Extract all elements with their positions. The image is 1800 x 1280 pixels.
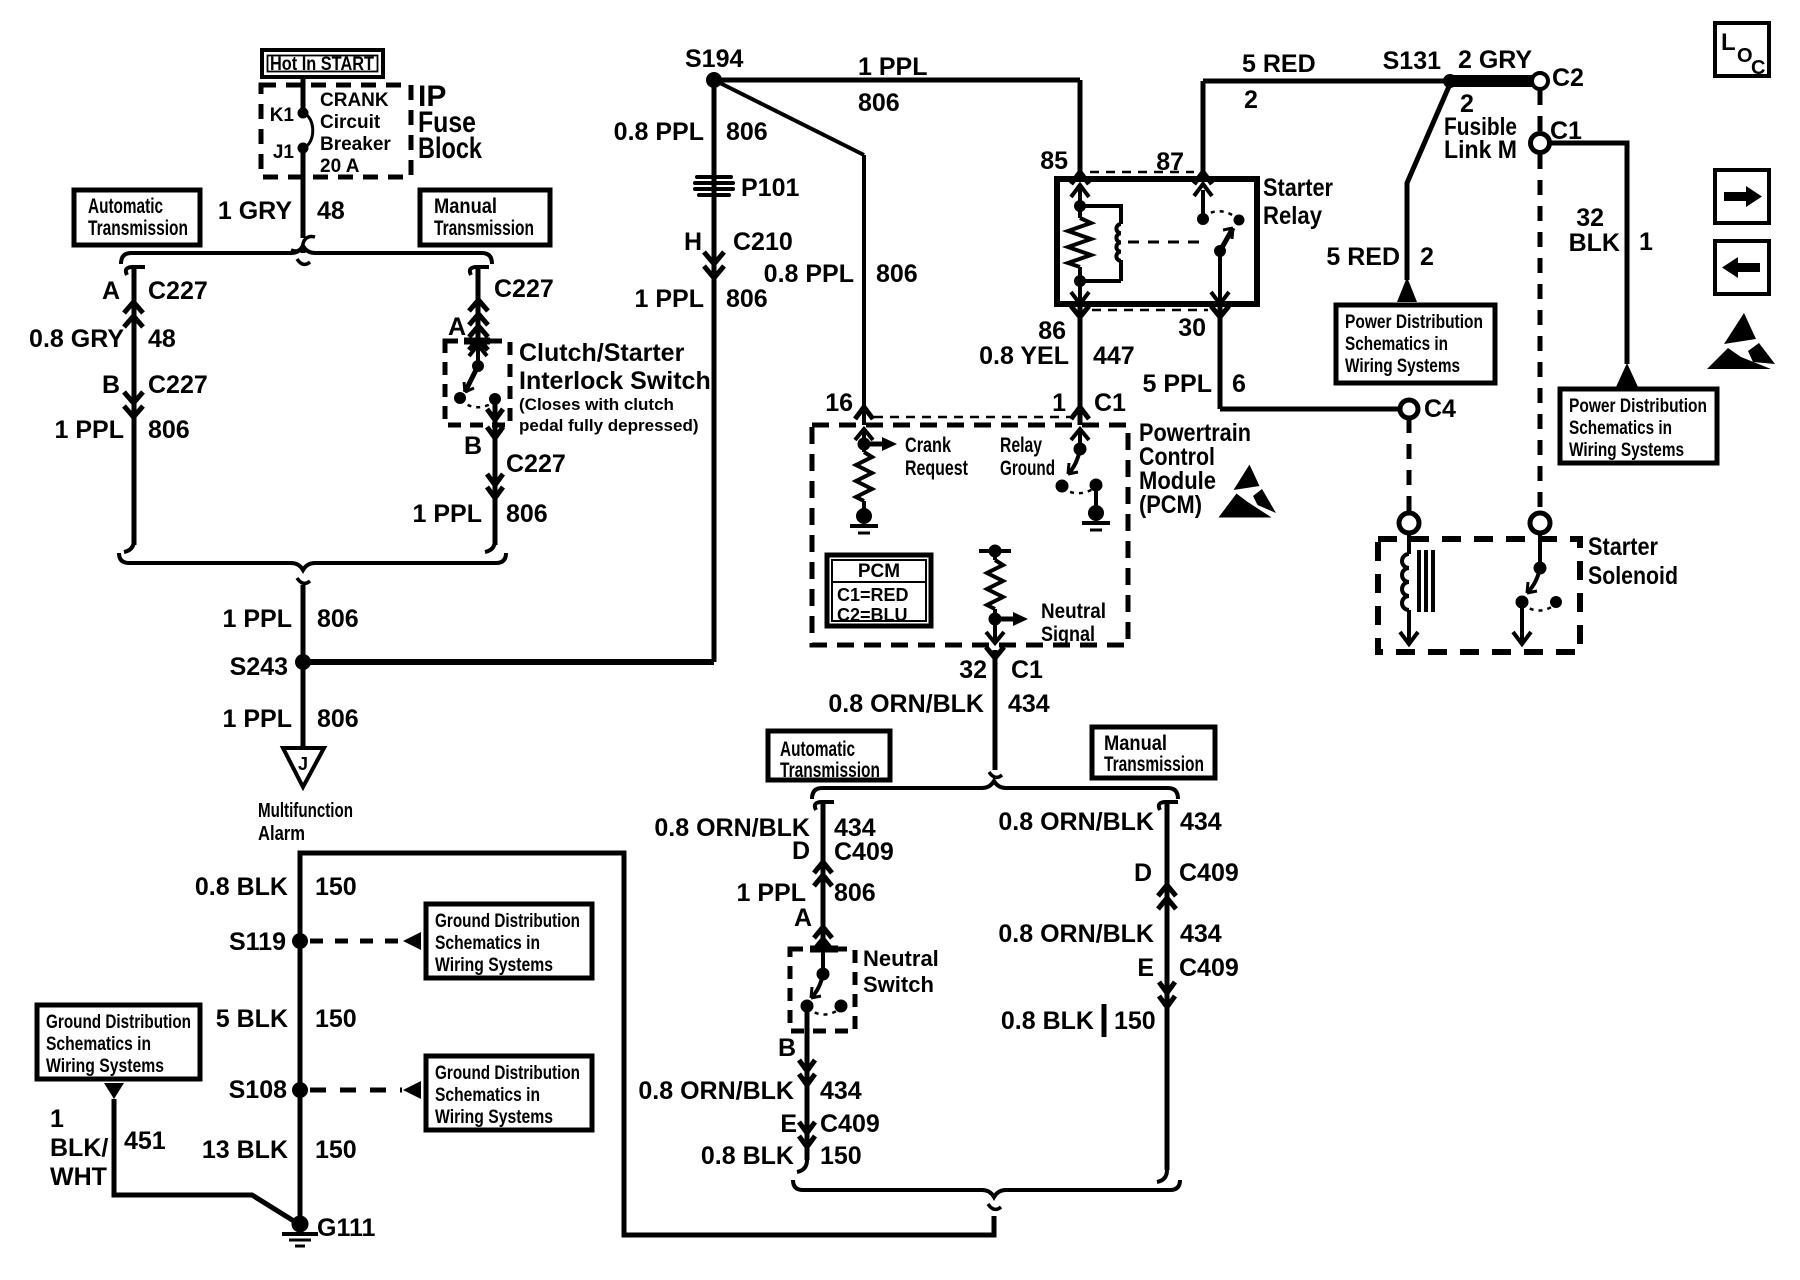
relay actuator dashed link [1128, 241, 1206, 244]
PCM dashed box [812, 425, 1128, 645]
svg-text:0.8 ORN/BLK: 0.8 ORN/BLK [654, 814, 810, 842]
svg-text:C227: C227 [506, 450, 566, 478]
neutral signal sense [979, 545, 1106, 646]
connector C409 pin D (auto) [792, 837, 894, 886]
svg-text:Crank: Crank [905, 434, 951, 457]
svg-text:Schematics in: Schematics in [46, 1033, 151, 1055]
wire brace to S243, 1 PPL 806 [301, 585, 306, 662]
connector C409 pin E (manual) [1137, 954, 1238, 1007]
svg-text:150: 150 [820, 1142, 862, 1170]
wire S243 down, 1 PPL 806 [301, 662, 306, 748]
PCM connector legend box [827, 555, 931, 626]
svg-text:Solenoid: Solenoid [1588, 562, 1678, 590]
svg-text:5 PPL: 5 PPL [1143, 370, 1212, 398]
svg-text:C4: C4 [1424, 395, 1456, 423]
wire 1 BLK/WHT 451 to G111 [50, 1099, 297, 1223]
svg-text:1 PPL: 1 PPL [413, 500, 482, 528]
neutral switch [790, 949, 855, 1060]
Manual Transmission label box (upper) [420, 190, 550, 245]
svg-text:C: C [1751, 57, 1765, 79]
automatic branch connector C409 pin D [815, 802, 834, 949]
svg-text:150: 150 [315, 873, 357, 901]
svg-text:0.8 ORN/BLK: 0.8 ORN/BLK [828, 690, 984, 718]
svg-text:0.8 PPL: 0.8 PPL [614, 118, 704, 146]
splice S119 [293, 934, 308, 949]
svg-text:Relay: Relay [1263, 202, 1322, 230]
merge brace at bottom [793, 1180, 1180, 1197]
reference arrow below left box [104, 1083, 124, 1099]
svg-text:(PCM): (PCM) [1139, 491, 1202, 519]
svg-text:0.8 ORN/BLK: 0.8 ORN/BLK [638, 1077, 794, 1105]
svg-text:C227: C227 [494, 275, 554, 303]
svg-text:S243: S243 [230, 653, 288, 681]
bottom hook automatic branch [124, 540, 134, 552]
svg-text:Switch: Switch [863, 972, 934, 997]
svg-text:Transmission: Transmission [88, 217, 188, 240]
svg-text:150: 150 [1114, 1007, 1156, 1035]
multifunction alarm symbol J [258, 748, 353, 845]
svg-text:Starter: Starter [1263, 174, 1333, 202]
svg-text:Manual: Manual [434, 195, 497, 218]
ground G111 [282, 1214, 375, 1246]
svg-text:A: A [794, 904, 812, 932]
svg-text:5 RED: 5 RED [1242, 50, 1316, 78]
svg-text:Wiring Systems: Wiring Systems [1569, 439, 1684, 461]
svg-text:K1: K1 [270, 105, 295, 126]
svg-text:C1=RED: C1=RED [837, 585, 909, 605]
svg-text:Neutral: Neutral [1041, 600, 1106, 623]
IP Fuse Block label [418, 80, 482, 165]
clutch switch labels [519, 339, 711, 435]
svg-text:C1: C1 [1011, 656, 1043, 684]
PCM pin 32 C1 [959, 647, 1043, 684]
svg-text:6: 6 [1232, 370, 1246, 398]
svg-text:PCM: PCM [858, 561, 900, 582]
svg-text:Power Distribution: Power Distribution [1345, 311, 1483, 333]
relay pin 87 [1156, 81, 1212, 184]
svg-text:Automatic: Automatic [780, 738, 855, 761]
connector C1 [1531, 134, 1550, 153]
dashed pin line 86-30 [1092, 309, 1208, 312]
manual branch connector [1159, 802, 1178, 1170]
crank request driver [850, 429, 968, 533]
svg-text:P101: P101 [741, 174, 799, 202]
ground distribution box (S108) [426, 1056, 592, 1130]
svg-text:Transmission: Transmission [780, 759, 880, 782]
relay ground switch [1000, 429, 1110, 530]
svg-text:2: 2 [1420, 243, 1434, 271]
LOC corner icon [1715, 23, 1769, 79]
svg-text:B: B [464, 432, 482, 460]
svg-text:G111: G111 [317, 1214, 375, 1242]
svg-text:806: 806 [148, 416, 190, 444]
relay pin 86 [1038, 304, 1089, 425]
svg-text:87: 87 [1156, 148, 1184, 176]
svg-text:447: 447 [1093, 342, 1135, 370]
wire 0.8 ORN/BLK 434 from pin 32 [993, 650, 998, 770]
wire S243 to P101 branch (horizontal) [303, 659, 714, 665]
connector C227 (manual branch top) [448, 267, 554, 350]
svg-text:Relay: Relay [1000, 434, 1042, 457]
svg-text:0.8 BLK: 0.8 BLK [701, 1142, 794, 1170]
svg-text:Wiring Systems: Wiring Systems [1345, 355, 1460, 377]
connector C210 pin H [684, 228, 793, 278]
svg-text:S119: S119 [229, 928, 286, 956]
svg-text:Power Distribution: Power Distribution [1569, 395, 1707, 417]
svg-text:(Closes with clutch: (Closes with clutch [519, 395, 674, 414]
svg-text:5 RED: 5 RED [1326, 243, 1400, 271]
diagonal wire S194 to PCM pin 16, 0.8 PPL 806 [714, 80, 864, 155]
Manual Transmission label box (lower) [1092, 727, 1215, 778]
svg-text:Clutch/Starter: Clutch/Starter [519, 339, 685, 367]
svg-text:Multifunction: Multifunction [258, 800, 353, 822]
starter relay box [1057, 179, 1257, 304]
Automatic Transmission label box (lower) [768, 731, 890, 782]
svg-text:434: 434 [820, 1077, 862, 1105]
svg-text:32: 32 [1576, 204, 1604, 232]
svg-text:Hot In START: Hot In START [270, 54, 374, 75]
wire S194 to relay pin 85, 1 PPL 806 [714, 78, 1080, 83]
svg-text:CRANK: CRANK [320, 90, 389, 111]
splice S194 [707, 73, 722, 88]
right arrow icon [1715, 170, 1769, 223]
svg-text:C2: C2 [1552, 64, 1584, 92]
svg-text:Schematics in: Schematics in [435, 932, 540, 954]
IP fuse block dashed box [261, 85, 411, 177]
svg-text:806: 806 [834, 879, 876, 907]
svg-text:20 A: 20 A [320, 156, 360, 177]
svg-text:B: B [778, 1034, 796, 1062]
svg-text:Wiring Systems: Wiring Systems [435, 1106, 553, 1128]
svg-text:806: 806 [506, 500, 548, 528]
svg-text:J: J [298, 754, 308, 774]
starter solenoid dashed box [1378, 539, 1580, 652]
svg-text:Ground: Ground [1000, 457, 1055, 480]
svg-text:Block: Block [418, 132, 482, 165]
svg-text:E: E [1137, 954, 1154, 982]
svg-text:85: 85 [1040, 147, 1068, 175]
svg-text:Automatic: Automatic [88, 195, 163, 218]
svg-text:1 GRY: 1 GRY [218, 197, 292, 225]
svg-text:806: 806 [858, 89, 900, 117]
svg-text:Interlock Switch: Interlock Switch [519, 367, 711, 395]
wire 5 RED 2 from pin 87 to S131 [1203, 79, 1450, 84]
svg-text:Starter: Starter [1588, 533, 1658, 561]
svg-text:2 GRY: 2 GRY [1458, 46, 1532, 74]
svg-text:pedal fully depressed): pedal fully depressed) [519, 416, 699, 435]
solenoid terminal (left) [1399, 513, 1419, 533]
Powertrain Control Module label [1139, 419, 1251, 519]
svg-text:806: 806 [317, 605, 359, 633]
relay coil resistor [1068, 185, 1091, 304]
solenoid switch [1513, 533, 1562, 644]
power distribution box (below 5 RED) [1336, 305, 1495, 383]
svg-text:0.8 BLK: 0.8 BLK [1001, 1007, 1094, 1035]
svg-text:S108: S108 [229, 1076, 287, 1104]
ground distribution box (left) [37, 1005, 200, 1079]
bottom hook (auto branch) [797, 1160, 807, 1172]
connector C409 pin E (auto) [780, 1110, 879, 1147]
svg-text:A: A [102, 277, 120, 305]
svg-text:Neutral: Neutral [863, 946, 939, 971]
svg-text:1 PPL: 1 PPL [223, 605, 292, 633]
dashed reference arrow S108 [310, 1081, 421, 1099]
solenoid terminal (right) [1530, 513, 1550, 533]
svg-text:S131: S131 [1383, 47, 1441, 75]
clutch/starter interlock switch [445, 341, 510, 425]
svg-text:Schematics in: Schematics in [435, 1084, 540, 1106]
svg-text:C409: C409 [834, 838, 894, 866]
svg-text:S194: S194 [685, 45, 743, 73]
dashed wire C1 to starter solenoid [1538, 154, 1543, 513]
svg-text:434: 434 [1008, 690, 1050, 718]
wire 5 RED 2 from S131 down to power distribution [1326, 84, 1450, 302]
bottom hook (manual branch) [1157, 1170, 1167, 1182]
relay pin 30 [1178, 304, 1229, 409]
neutral switch pin B [778, 1034, 815, 1160]
circuit breaker CRANK 20A [270, 90, 392, 177]
relay pin 85 [1040, 80, 1089, 184]
svg-text:434: 434 [1180, 808, 1222, 836]
svg-text:BLK: BLK [1569, 229, 1620, 257]
svg-text:1: 1 [50, 1105, 64, 1133]
svg-text:1 PPL: 1 PPL [737, 879, 806, 907]
ESD symbol (PCM) [1219, 465, 1277, 518]
splice brace top (splits 1 GRY to A and B branches) [121, 246, 492, 264]
svg-text:806: 806 [876, 260, 918, 288]
svg-text:C227: C227 [148, 277, 208, 305]
svg-text:Link M: Link M [1444, 136, 1517, 164]
svg-text:0.8 BLK: 0.8 BLK [195, 873, 288, 901]
power distribution box (below 32 BLK) [1560, 389, 1717, 463]
svg-text:Circuit: Circuit [320, 112, 381, 133]
svg-text:Schematics in: Schematics in [1345, 333, 1448, 355]
svg-text:J1: J1 [273, 142, 295, 163]
svg-text:0.8 YEL: 0.8 YEL [979, 342, 1069, 370]
relay coil [1080, 206, 1121, 281]
svg-text:150: 150 [315, 1136, 357, 1164]
svg-text:Breaker: Breaker [320, 134, 391, 155]
Automatic Transmission label box (upper) [74, 190, 200, 245]
svg-text:Ground Distribution: Ground Distribution [46, 1011, 191, 1033]
svg-text:D: D [1134, 859, 1152, 887]
connector C227 pin B (automatic branch) [102, 371, 208, 417]
svg-text:451: 451 [124, 1127, 166, 1155]
wire from Hot In START to K1 [301, 77, 306, 113]
wire 32 BLK 1 from C1 [1550, 143, 1653, 387]
svg-text:Request: Request [905, 457, 968, 480]
dashed pin line 85-87 [1090, 171, 1194, 174]
svg-text:86: 86 [1038, 317, 1066, 345]
svg-text:C409: C409 [1179, 954, 1239, 982]
merge brace to S243 [119, 553, 506, 570]
svg-text:D: D [792, 837, 810, 865]
svg-text:Schematics in: Schematics in [1569, 417, 1672, 439]
svg-text:C409: C409 [1179, 859, 1239, 887]
svg-text:48: 48 [148, 325, 176, 353]
splice S131 [1444, 75, 1457, 88]
connector C409 pin D (manual) [1134, 859, 1239, 909]
svg-text:1 PPL: 1 PPL [858, 53, 927, 81]
svg-text:806: 806 [726, 118, 768, 146]
svg-text:1: 1 [1052, 389, 1066, 417]
svg-text:2: 2 [1244, 86, 1258, 114]
svg-text:32: 32 [959, 656, 987, 684]
svg-text:H: H [684, 228, 702, 256]
svg-text:434: 434 [1180, 920, 1222, 948]
connector C2 [1532, 73, 1548, 89]
svg-text:0.8 GRY: 0.8 GRY [29, 325, 124, 353]
splice S243 [296, 655, 311, 670]
svg-text:30: 30 [1178, 314, 1206, 342]
svg-text:C1: C1 [1094, 389, 1126, 417]
svg-text:0.8 PPL: 0.8 PPL [764, 260, 854, 288]
wire J1 to splice brace, label 1 GRY 48 [301, 148, 306, 238]
svg-text:L: L [1721, 29, 1736, 56]
inline connector P101 [695, 174, 799, 202]
svg-text:B: B [102, 371, 120, 399]
svg-text:Ground Distribution: Ground Distribution [435, 910, 580, 932]
svg-text:150: 150 [315, 1005, 357, 1033]
svg-text:1 PPL: 1 PPL [223, 705, 292, 733]
ground wire routing from transmission branches to G111 [300, 853, 994, 1235]
relay switch [1194, 184, 1244, 304]
svg-text:Wiring Systems: Wiring Systems [435, 954, 553, 976]
svg-text:5 BLK: 5 BLK [216, 1005, 288, 1033]
dashed reference arrow S119 [310, 932, 421, 950]
svg-text:806: 806 [726, 285, 768, 313]
svg-text:C409: C409 [820, 1110, 880, 1138]
PCM pin 16 [825, 389, 873, 419]
svg-text:1 PPL: 1 PPL [55, 416, 124, 444]
PCM pin 1 C1 [1052, 389, 1126, 419]
neutral switch pin A [794, 904, 832, 950]
svg-text:1: 1 [1639, 228, 1653, 256]
svg-text:Alarm: Alarm [258, 823, 305, 845]
svg-text:Manual: Manual [1104, 732, 1167, 755]
svg-text:0.8 ORN/BLK: 0.8 ORN/BLK [998, 808, 1154, 836]
solenoid coil [1400, 533, 1433, 644]
wire S194 down to S243 line, 0.8 PPL 806 [712, 80, 717, 662]
svg-text:Wiring Systems: Wiring Systems [46, 1055, 164, 1077]
ESD symbol (corner) [1707, 313, 1775, 369]
svg-text:C210: C210 [733, 228, 793, 256]
svg-text:A: A [448, 313, 466, 341]
svg-text:48: 48 [317, 197, 345, 225]
ground distribution box (S119) [426, 904, 592, 978]
svg-text:C2=BLU: C2=BLU [837, 605, 908, 625]
wire break symbol [291, 236, 315, 251]
dashed pin line 16 to 1 [874, 416, 1070, 419]
dashed wire C4 to starter solenoid [1407, 418, 1412, 512]
connector C227 pin A (automatic branch) [102, 267, 208, 545]
svg-text:806: 806 [317, 705, 359, 733]
svg-text:Transmission: Transmission [434, 217, 534, 240]
connector C227 pin B (manual branch) [464, 419, 566, 545]
split brace pin32 wire to transmissions [812, 781, 1178, 799]
svg-text:Transmission: Transmission [1104, 753, 1204, 776]
svg-text:WHT: WHT [50, 1163, 107, 1191]
splice S108 [293, 1083, 308, 1098]
svg-text:Ground Distribution: Ground Distribution [435, 1062, 580, 1084]
svg-text:BLK/: BLK/ [50, 1134, 108, 1162]
dashed wire C2 to C1 [1538, 90, 1543, 132]
svg-text:0.8 ORN/BLK: 0.8 ORN/BLK [998, 920, 1154, 948]
Hot In START label box [262, 50, 383, 77]
svg-text:E: E [780, 1110, 797, 1138]
svg-text:1 PPL: 1 PPL [635, 285, 704, 313]
bottom hook manual branch [485, 540, 495, 552]
svg-text:C227: C227 [148, 371, 208, 399]
svg-text:16: 16 [825, 389, 853, 417]
svg-text:13 BLK: 13 BLK [202, 1136, 288, 1164]
left arrow icon [1715, 241, 1769, 294]
fusible link M (2 GRY) [1444, 46, 1534, 164]
svg-text:Signal: Signal [1041, 623, 1095, 646]
connector C4 [1400, 400, 1418, 418]
